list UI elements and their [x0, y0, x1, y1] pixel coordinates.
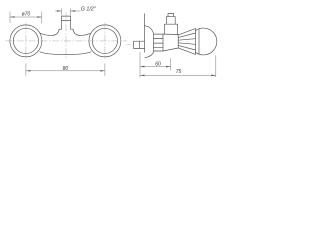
body top profile left — [40, 29, 59, 35]
left circle vertical centerline — [25, 23, 27, 60]
stub base ledge left — [59, 28, 61, 30]
svg-text:ø70: ø70 — [22, 11, 31, 17]
dim line — [10, 16, 42, 18]
body transition block — [163, 34, 178, 51]
arrowheads phi70 — [10, 16, 42, 18]
arrowheads 80 — [26, 70, 105, 72]
ext line wall — [139, 52, 141, 78]
stub base — [165, 24, 178, 34]
stub tip rect — [168, 13, 174, 16]
dimension 75 — [140, 56, 216, 78]
right circle vertical centerline — [104, 23, 106, 60]
handle cone top edge — [178, 29, 195, 35]
escutcheon bell top arc — [145, 26, 154, 34]
thin centerlines front view — [5, 13, 127, 60]
ext line right — [70, 8, 72, 15]
body rib line 2 — [154, 42, 164, 44]
dim line left with arrow outside — [55, 10, 61, 12]
arrowheads 60 — [140, 66, 171, 68]
svg-text:75: 75 — [176, 69, 182, 75]
stub thread line — [62, 20, 71, 22]
ext line knob tip — [215, 56, 217, 78]
dim line 75 — [140, 74, 216, 76]
stub collar rect — [166, 17, 175, 25]
ext line outlet axis — [170, 59, 172, 71]
handle cone left edge — [177, 35, 179, 49]
arrowheads G 1/2 — [57, 10, 75, 12]
ext line right — [41, 12, 43, 24]
valve body block — [154, 34, 164, 51]
dimension phi70 — [10, 12, 42, 24]
stub base ledge right — [71, 28, 73, 30]
escutcheon right outer circle — [89, 25, 121, 57]
outlet stub — [62, 16, 71, 29]
handle rib d — [178, 45, 195, 50]
handle rib c — [178, 43, 195, 45]
dim line right leader — [71, 10, 81, 12]
dim line 60 — [140, 66, 171, 68]
svg-text:80: 80 — [63, 66, 69, 72]
knob dome — [196, 28, 217, 55]
escutcheon right inner circle — [92, 28, 117, 53]
stub vertical centerline — [65, 13, 67, 59]
body bottom profile — [40, 52, 91, 55]
dimension G 1/2 — [55, 8, 80, 15]
svg-text:60: 60 — [155, 62, 161, 68]
escutcheon left outer circle — [10, 25, 42, 57]
dimension 60 — [140, 52, 171, 78]
handle cone bottom edge — [178, 48, 195, 55]
body rib line 3 — [154, 46, 164, 48]
ext line left — [25, 64, 27, 76]
escutcheon bell bottom arc — [145, 51, 154, 58]
horizontal centerline — [5, 40, 127, 42]
body rib line 1 — [154, 38, 164, 40]
body top profile right — [73, 29, 91, 35]
ext line left — [9, 12, 11, 24]
escutcheon left inner circle — [13, 28, 38, 53]
svg-text:G 1/2": G 1/2" — [81, 7, 97, 13]
in-wall union rectangle — [134, 41, 145, 48]
union nut face line — [138, 41, 140, 48]
wall line — [144, 14, 146, 53]
handle rib b — [178, 39, 195, 41]
handle rib a — [178, 33, 195, 38]
side view centerline — [127, 43, 133, 45]
knob flat face — [195, 29, 197, 55]
ext line left — [61, 8, 63, 15]
dim line — [26, 70, 105, 72]
knob inner line — [198, 29, 200, 55]
ext line right — [104, 64, 106, 76]
dimension 80 — [26, 64, 105, 76]
arrowheads 75 — [140, 75, 216, 77]
